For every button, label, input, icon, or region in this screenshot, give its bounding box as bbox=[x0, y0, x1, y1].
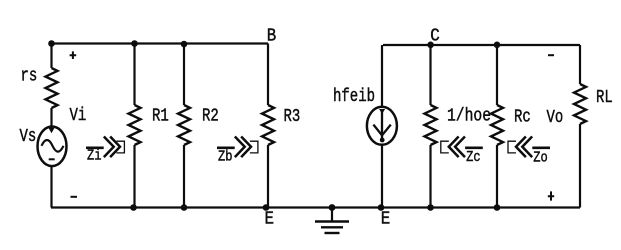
svg-text:Vo: Vo bbox=[547, 108, 564, 128]
wire current source top bbox=[381, 45, 383, 107]
wire bottom horizontal E-rail bbox=[51, 206, 580, 208]
svg-text:rs: rs bbox=[21, 67, 38, 87]
node R1 bottom bbox=[130, 204, 137, 211]
wire top-right horizontal C-rail bbox=[383, 44, 580, 46]
node R2 bottom bbox=[181, 204, 188, 211]
resistor rs bbox=[21, 67, 58, 109]
impedance arrow Zo bbox=[508, 137, 550, 166]
wire R1 branch bottom bbox=[133, 145, 135, 208]
label + (Vo bottom polarity) bbox=[548, 191, 554, 200]
resistor 1/hoe bbox=[425, 105, 492, 145]
svg-text:R1: R1 bbox=[152, 107, 169, 127]
wire Vs to bottom rail bbox=[50, 166, 52, 207]
ground bbox=[315, 204, 349, 233]
label - (Vo top polarity) bbox=[548, 54, 554, 56]
svg-text:Zc: Zc bbox=[466, 149, 481, 166]
svg-text:E: E bbox=[381, 209, 391, 229]
svg-text:Vi: Vi bbox=[70, 106, 87, 126]
svg-text:hfeib: hfeib bbox=[333, 87, 375, 107]
wire rs to Vs source bbox=[50, 108, 52, 131]
node Rc bottom bbox=[494, 204, 501, 211]
resistor R1 bbox=[129, 105, 169, 145]
node R3 bottom / E bbox=[263, 204, 270, 211]
wire R3 branch top bbox=[267, 44, 269, 106]
node top-left bbox=[48, 40, 55, 47]
svg-text:Zi: Zi bbox=[87, 148, 102, 165]
wire top-left horizontal B-rail bbox=[51, 42, 268, 44]
node R1 top bbox=[131, 40, 138, 47]
impedance arrow Zc bbox=[441, 137, 483, 166]
wire R1 branch top bbox=[133, 44, 135, 106]
svg-text:Zb: Zb bbox=[218, 149, 233, 166]
svg-text:1/hoe: 1/hoe bbox=[447, 107, 491, 127]
resistor R3 bbox=[262, 105, 300, 145]
resistor R2 bbox=[178, 105, 219, 145]
resistor Rc bbox=[491, 105, 531, 145]
node C bbox=[427, 42, 434, 49]
node 1/hoe bottom bbox=[427, 204, 434, 211]
impedance arrow Zb bbox=[217, 137, 258, 165]
wire Rc branch bottom bbox=[496, 145, 498, 208]
svg-text:Rc: Rc bbox=[514, 108, 531, 128]
node current source bottom / E bbox=[378, 204, 385, 211]
svg-text:E: E bbox=[265, 209, 275, 229]
wire RL branch top bbox=[579, 45, 581, 84]
impedance arrow Zi bbox=[86, 137, 124, 164]
svg-text:R2: R2 bbox=[202, 107, 219, 127]
label + (Vi top polarity) bbox=[70, 51, 77, 59]
current source hfeib bbox=[367, 107, 397, 145]
svg-text:R3: R3 bbox=[284, 107, 301, 127]
svg-text:RL: RL bbox=[596, 88, 613, 108]
wire R2 branch bottom bbox=[183, 145, 185, 208]
label - (Vi bottom polarity) bbox=[71, 196, 78, 198]
wire 1/hoe branch top bbox=[429, 45, 431, 105]
node R2 top bbox=[181, 41, 188, 48]
wire RL branch bottom bbox=[579, 124, 581, 208]
wire Rc branch top bbox=[496, 45, 498, 105]
wire R2 branch top bbox=[183, 44, 185, 106]
resistor RL bbox=[574, 84, 613, 124]
wire left branch top segment bbox=[50, 44, 52, 69]
svg-text:Zo: Zo bbox=[533, 150, 548, 167]
wire 1/hoe branch bottom bbox=[429, 145, 431, 208]
wire R3 branch bottom bbox=[267, 145, 269, 208]
voltage source Vs bbox=[20, 127, 67, 167]
svg-text:Vs: Vs bbox=[20, 127, 37, 147]
node Rc top bbox=[494, 42, 501, 49]
wire current source bottom bbox=[381, 145, 383, 208]
